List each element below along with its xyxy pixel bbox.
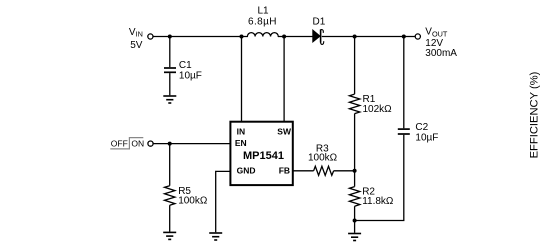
node EN junction	[168, 142, 172, 146]
wire R5 bottom to ground	[169, 205, 171, 232]
wire R1 bottom to R2 top	[354, 114, 356, 187]
wire R2 bottom to ground	[354, 206, 356, 233]
wire top rail VIN to L1	[153, 36, 248, 38]
svg-text:10µF: 10µF	[415, 133, 438, 144]
svg-text:SW: SW	[277, 127, 292, 137]
wire IN pin from L1 left	[241, 37, 243, 122]
node R1 top junction	[353, 35, 357, 39]
node C1 top junction	[168, 35, 172, 39]
terminal VIN circle	[148, 34, 153, 39]
svg-text:FB: FB	[279, 165, 290, 175]
resistor R5 100k zigzag	[165, 186, 175, 206]
terminal EN circle	[148, 141, 153, 146]
wire C2 branch upper	[403, 37, 405, 129]
wire C2 branch lower	[355, 135, 404, 221]
ground below GND pin	[209, 233, 222, 240]
node C2 top junction	[402, 35, 406, 39]
svg-text:GND: GND	[237, 165, 256, 175]
svg-text:ON: ON	[131, 139, 144, 149]
wire GND pin to ground	[216, 171, 231, 232]
resistor R3 100k horizontal zigzag	[314, 166, 334, 175]
node FB junction	[353, 169, 357, 173]
wire C1 branch upper	[169, 37, 171, 68]
ground below C1	[163, 96, 176, 103]
svg-text:D1: D1	[313, 17, 326, 28]
wire C1 branch lower	[169, 73, 171, 95]
svg-text:5V: 5V	[130, 40, 143, 51]
svg-text:300mA: 300mA	[425, 48, 457, 59]
svg-text:OFF: OFF	[111, 139, 128, 149]
svg-text:EN: EN	[235, 138, 247, 148]
resistor R1 102k zigzag	[349, 94, 359, 114]
svg-text:100kΩ: 100kΩ	[308, 152, 338, 163]
ground below R2	[348, 234, 361, 241]
wire L1 to D1	[278, 36, 313, 38]
diode D1	[313, 30, 324, 45]
wire R5 branch top	[169, 144, 171, 186]
node SW junction	[282, 35, 286, 39]
svg-text:C1: C1	[179, 60, 192, 71]
inductor L1	[247, 33, 278, 37]
svg-text:11.8kΩ: 11.8kΩ	[362, 196, 394, 207]
wire D1 to VOUT	[322, 36, 415, 38]
svg-text:102kΩ: 102kΩ	[363, 104, 393, 115]
node IN junction	[240, 35, 244, 39]
capacitor C2 plates	[398, 129, 410, 134]
wire R3 to feedback node	[334, 170, 355, 172]
svg-text:EFFICIENCY (%): EFFICIENCY (%)	[529, 71, 541, 158]
svg-text:MP1541: MP1541	[243, 150, 284, 162]
capacitor C1 plates	[164, 68, 176, 72]
IC U1 MP1541 box	[230, 122, 292, 185]
svg-text:VOUT: VOUT	[425, 27, 448, 39]
terminal VOUT circle	[415, 34, 420, 39]
wire FB pin to R3	[293, 170, 314, 172]
ground below R5	[163, 232, 176, 239]
svg-text:100kΩ: 100kΩ	[178, 196, 208, 207]
svg-text:L1: L1	[258, 6, 270, 17]
wire R1 branch top	[354, 37, 356, 95]
resistor R2 11.8k zigzag	[349, 187, 359, 207]
wire SW pin from L1 right	[283, 37, 285, 122]
wire EN row	[153, 143, 230, 145]
svg-text:IN: IN	[237, 127, 246, 137]
node R2 bottom junction	[353, 219, 357, 223]
svg-text:VIN: VIN	[129, 27, 143, 39]
svg-text:10µF: 10µF	[179, 71, 202, 82]
svg-text:6.8µH: 6.8µH	[248, 16, 277, 27]
OFF/ON step symbol	[110, 138, 144, 149]
